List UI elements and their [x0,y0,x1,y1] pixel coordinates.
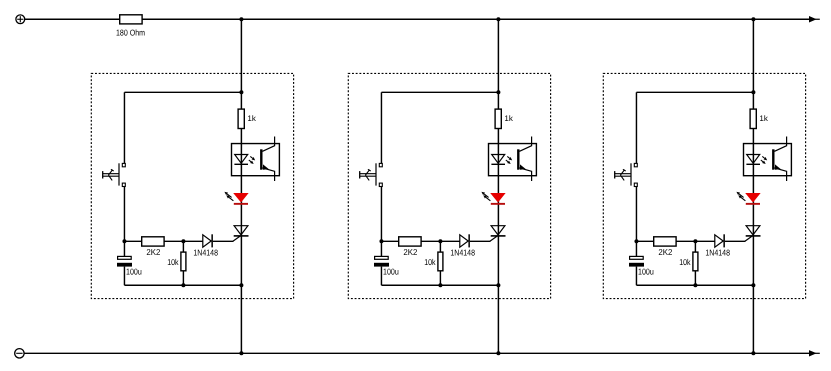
junction: 10k / bottom internal channel 3 [693,283,697,287]
resistor 1k channel 1 [238,109,244,128]
capacitor C3 100u [629,256,644,266]
junction: rail / bottom bus channel 1 [239,351,243,355]
svg-text:10k: 10k [167,257,179,267]
svg-text:180 Ohm: 180 Ohm [116,28,145,38]
wire: capacitor to bottom internal channel 3 [635,267,637,286]
svg-text:1k: 1k [247,114,256,123]
dotted enclosure: channel 1 [91,73,293,298]
wire: top internal horizontal channel 1 [124,91,241,93]
svg-text:100u: 100u [383,266,399,276]
arrow: bottom bus continuation (right end) [809,350,820,356]
svg-text:100u: 100u [126,266,142,276]
wire: bottom internal horizontal channel 2 [381,284,498,286]
junction: gate branch / 10k channel 2 [438,239,442,243]
wire: capacitor to bottom internal channel 1 [123,267,125,286]
junction: top internal / rail channel 3 [751,90,755,94]
wire: bottom return bus [24,352,809,354]
optocoupler U1 [232,137,280,182]
wire: 10k vertical channel 2 [439,241,441,285]
wire: gate branch left segment channel 2 [381,240,459,242]
diode D1 1N4148 [203,234,213,247]
wire: left branch upper channel 2 [380,92,382,163]
svg-text:1N4148: 1N4148 [705,248,730,258]
dotted enclosure: channel 3 [603,73,805,298]
junction: left branch / gate branch channel 3 [634,239,638,243]
wire: top internal horizontal channel 3 [636,91,753,93]
junction: bottom internal / rail channel 1 [239,283,243,287]
diode D3 1N4148 [715,234,725,247]
optocoupler U3 [744,137,792,182]
svg-text:1k: 1k [759,114,768,123]
resistor 10k channel 3 [693,252,698,271]
resistor 2K2 channel 3 [654,237,676,246]
junction: rail / top bus channel 3 [751,17,755,21]
terminal X1 positive (top left) [16,15,25,24]
diode D2 1N4148 [460,234,470,247]
junction: left branch / gate branch channel 1 [122,239,126,243]
wire: gate branch left segment channel 1 [124,240,202,242]
dotted enclosure: channel 2 [348,73,550,298]
capacitor C2 100u [374,256,389,266]
svg-text:100u: 100u [638,266,654,276]
wire: bottom internal horizontal channel 3 [636,284,753,286]
wire: main vertical rail channel 2 [497,19,499,353]
capacitor C1 100u [117,256,132,266]
pushbutton S2 [360,163,383,186]
wire: gate branch left segment channel 3 [636,240,714,242]
wire: main vertical rail channel 1 [240,19,242,353]
optocoupler U2 [489,137,537,182]
svg-text:10k: 10k [679,257,691,267]
LED LD2 red indicator [481,192,505,205]
wire: main vertical rail channel 3 [752,19,754,353]
junction: top internal / rail channel 1 [239,90,243,94]
resistor 10k channel 2 [438,252,443,271]
LED LD3 red indicator [736,192,760,205]
junction: rail / top bus channel 2 [496,17,500,21]
wire: capacitor to bottom internal channel 2 [380,267,382,286]
junction: top internal / rail channel 2 [496,90,500,94]
junction: gate branch / 10k channel 1 [181,239,185,243]
wire: 10k vertical channel 1 [182,241,184,285]
thyristor T1 [233,226,249,242]
wire: top supply bus [25,18,809,20]
resistor 1k channel 3 [750,109,756,128]
wire: left branch lower channel 1 [123,187,125,256]
LED LD1 red indicator [224,192,248,205]
thyristor T2 [490,226,506,242]
pushbutton S3 [615,163,638,186]
wire: bottom internal horizontal channel 1 [124,284,241,286]
resistor 2K2 channel 2 [399,237,421,246]
junction: 10k / bottom internal channel 1 [181,283,185,287]
svg-text:2K2: 2K2 [403,247,417,257]
resistor R1 180 Ohm [120,15,142,24]
svg-text:2K2: 2K2 [658,247,672,257]
terminal X2 negative (bottom left) [15,349,24,358]
wire: gate branch right segment channel 2 [470,240,491,242]
junction: bottom internal / rail channel 3 [751,283,755,287]
wire: left branch lower channel 2 [380,187,382,256]
thyristor T3 [745,226,761,242]
junction: bottom internal / rail channel 2 [496,283,500,287]
resistor 10k channel 1 [181,252,186,271]
resistor 2K2 channel 1 [142,237,164,246]
junction: rail / top bus channel 1 [239,17,243,21]
wire: 10k vertical channel 3 [694,241,696,285]
pushbutton S1 [103,163,126,186]
junction: left branch / gate branch channel 2 [379,239,383,243]
arrow: top bus continuation (right end) [809,16,820,22]
svg-text:2K2: 2K2 [146,247,160,257]
wire: gate branch right segment channel 3 [725,240,746,242]
junction: gate branch / 10k channel 3 [693,239,697,243]
resistor 1k channel 2 [495,109,501,128]
svg-text:10k: 10k [424,257,436,267]
wire: left branch upper channel 3 [635,92,637,163]
wire: top internal horizontal channel 2 [381,91,498,93]
svg-text:1k: 1k [504,114,513,123]
svg-text:1N4148: 1N4148 [193,248,218,258]
junction: 10k / bottom internal channel 2 [438,283,442,287]
wire: left branch upper channel 1 [123,92,125,163]
junction: rail / bottom bus channel 3 [751,351,755,355]
svg-text:1N4148: 1N4148 [450,248,475,258]
junction: rail / bottom bus channel 2 [496,351,500,355]
wire: left branch lower channel 3 [635,187,637,256]
wire: gate branch right segment channel 1 [213,240,234,242]
